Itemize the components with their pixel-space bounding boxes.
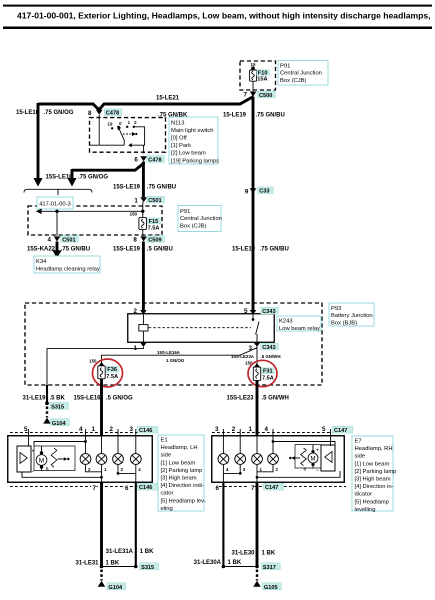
svg-text:15-LE21: 15-LE21 <box>156 96 180 102</box>
off-page reference 417-01-00-3 box <box>37 197 73 209</box>
svg-text:side: side <box>355 454 366 460</box>
E7 bottom connector line <box>214 486 346 488</box>
wire 31-LE31A E1 pin 6 <box>135 482 137 567</box>
svg-text:.75 GN/OG: .75 GN/OG <box>78 175 108 181</box>
svg-text:1 BK: 1 BK <box>140 549 154 555</box>
svg-text:[0] Off: [0] Off <box>171 136 187 142</box>
svg-text:−: − <box>316 467 319 472</box>
svg-text:15S-LE16: 15S-LE16 <box>74 395 102 401</box>
svg-text:S315: S315 <box>141 565 154 571</box>
svg-text:C146: C146 <box>139 428 152 434</box>
connector C501 top <box>140 197 147 202</box>
svg-text:.5 BK: .5 BK <box>50 395 66 401</box>
connector chip C147 bottom <box>264 483 284 490</box>
svg-text:Battery Junction: Battery Junction <box>331 313 373 319</box>
svg-text:Main light switch: Main light switch <box>171 128 214 134</box>
wire 15-LE10 vertical <box>37 103 40 179</box>
switch contact 2 link to output <box>131 127 145 145</box>
svg-text:6: 6 <box>134 157 138 164</box>
N113 label box <box>169 117 219 164</box>
E1 position sensor resistor <box>51 448 57 467</box>
K34 headlamp cleaning relay label box <box>34 256 100 273</box>
svg-text:E1: E1 <box>161 438 168 444</box>
wire 15S-LE19 to relay <box>142 242 145 312</box>
relay pin 1 connector <box>140 342 147 347</box>
svg-text:side: side <box>161 453 172 459</box>
svg-text:7: 7 <box>244 92 248 99</box>
connector chip C343 bottom <box>261 343 279 350</box>
svg-text:15-LE10: 15-LE10 <box>16 110 40 116</box>
svg-text:C509: C509 <box>148 237 161 243</box>
F15 value chip <box>148 218 161 224</box>
switch feed wire from pin 8 <box>98 115 100 145</box>
svg-text:C33: C33 <box>259 189 269 195</box>
svg-text:15S-LE23A: 15S-LE23A <box>231 354 255 359</box>
svg-text:.5 GN/OG: .5 GN/OG <box>106 395 133 401</box>
E1 module rail <box>34 442 86 447</box>
wire F10 to C500 <box>252 81 254 91</box>
E1 inner frame <box>34 446 75 471</box>
connector C501 bottom <box>54 236 61 241</box>
fuse F15 <box>139 218 147 230</box>
svg-text:[3] High beam: [3] High beam <box>355 477 391 483</box>
svg-text:1 BK: 1 BK <box>228 560 242 566</box>
svg-text:417-01-00-001, Exterior Lighti: 417-01-00-001, Exterior Lighting, Headla… <box>17 11 431 21</box>
svg-text:C478: C478 <box>106 111 119 117</box>
wire F15 to pin 8 <box>142 229 144 236</box>
connector chip C146 bottom <box>138 483 158 490</box>
svg-text:[5] Headlamp lev-: [5] Headlamp lev- <box>161 498 206 504</box>
wire 15-LE19 vertical feed <box>252 97 255 312</box>
svg-text:C500: C500 <box>259 93 272 99</box>
CJB internal bus wire <box>41 210 143 212</box>
wire 15S-KA22 <box>56 242 59 252</box>
svg-text:15: 15 <box>251 62 256 67</box>
E1 top connector line <box>10 432 152 434</box>
svg-text:31-LE19: 31-LE19 <box>23 395 47 401</box>
svg-text:[2] Parking lamp: [2] Parking lamp <box>161 468 203 474</box>
svg-text:31-LE31A: 31-LE31A <box>106 549 134 555</box>
svg-text:15S-LE10: 15S-LE10 <box>46 175 74 181</box>
E7 leveling module <box>316 445 335 472</box>
node: F10 feed dot <box>251 66 255 70</box>
lamp E7 high beam <box>218 454 229 472</box>
svg-text:C147: C147 <box>265 485 278 491</box>
title bar top rule <box>3 5 432 7</box>
connector chip C343 top <box>261 307 279 314</box>
ground G104 <box>98 581 106 587</box>
relay pin 2 connector <box>140 310 147 315</box>
svg-text:15-LE19: 15-LE19 <box>232 246 256 252</box>
switch linked wiper dashed <box>123 133 132 135</box>
svg-text:M: M <box>311 456 316 462</box>
pin 6 <box>124 484 130 491</box>
wire relay pin 3 feed bus 15S-LE16A <box>102 347 258 363</box>
switch contact 19 <box>111 127 113 129</box>
ground stub dashed right <box>256 570 258 581</box>
wire 15-LE21 C500 to switch pin 8 <box>99 97 253 110</box>
inspection circle right (red) <box>248 360 277 386</box>
E1 label box <box>158 435 206 512</box>
P91 label box lower <box>178 206 222 232</box>
svg-text:P93: P93 <box>331 306 341 312</box>
svg-text:[1] Low beam: [1] Low beam <box>355 461 390 467</box>
svg-text:G104: G104 <box>52 421 67 427</box>
svg-text:Headlamp, RH: Headlamp, RH <box>355 446 393 452</box>
svg-text:150: 150 <box>89 359 97 364</box>
wire bus to F15 <box>142 202 144 218</box>
svg-text:G104: G104 <box>108 585 123 591</box>
relay mechanical link <box>149 327 251 329</box>
svg-text:K243: K243 <box>279 319 293 325</box>
svg-text:8: 8 <box>133 237 137 244</box>
connector chip C147 top <box>333 426 353 433</box>
svg-text:3: 3 <box>130 426 134 433</box>
svg-text:15S-LE19: 15S-LE19 <box>113 185 141 191</box>
svg-text:31-LE30A: 31-LE30A <box>194 560 222 566</box>
connector C500 <box>250 92 257 97</box>
svg-text:7: 7 <box>93 485 97 492</box>
svg-text:5: 5 <box>322 426 326 433</box>
P93 label box <box>329 303 374 327</box>
svg-text:C147: C147 <box>334 428 347 434</box>
off-page arrow 15-LE10 <box>33 178 42 187</box>
switch contact 1 <box>126 126 128 128</box>
svg-text:31-LE30: 31-LE30 <box>231 550 255 556</box>
headlamp E1 body <box>8 436 153 483</box>
lamp E1 parking <box>113 454 124 472</box>
lamp E7 low beam <box>252 454 263 472</box>
svg-text:1 GN/OG: 1 GN/OG <box>166 358 185 363</box>
svg-text:+: + <box>316 447 319 452</box>
relay K243 body <box>128 314 275 343</box>
ground stub dashed left <box>100 570 102 581</box>
svg-text:C501: C501 <box>148 198 161 204</box>
connector C478 top <box>96 110 103 115</box>
svg-text:15S-KA22: 15S-KA22 <box>27 246 56 252</box>
wire 15S-LE10 branch <box>72 162 143 171</box>
svg-text:C146: C146 <box>139 485 152 491</box>
connector C33 <box>250 188 257 193</box>
switch output to pin 6 <box>143 145 145 153</box>
ground G104 <box>43 418 51 424</box>
svg-text:.75 GN/OG: .75 GN/OG <box>44 110 74 116</box>
switch contact 2 <box>133 126 135 128</box>
svg-text:M: M <box>39 457 44 464</box>
relay contact <box>252 314 254 318</box>
lamp E1 low beam <box>96 454 107 472</box>
svg-text:[19] Parking lamps: [19] Parking lamps <box>171 158 219 164</box>
svg-text:Headlamp cleaning relay: Headlamp cleaning relay <box>36 266 100 272</box>
svg-text:S317: S317 <box>263 565 276 571</box>
connector C478 bottom <box>140 156 147 161</box>
svg-text:6: 6 <box>125 485 129 492</box>
svg-text:4: 4 <box>265 426 269 433</box>
pin 7 <box>249 484 255 491</box>
svg-text:levelling: levelling <box>355 507 376 513</box>
node bus to F15 <box>141 210 144 213</box>
svg-text:cator: cator <box>161 491 174 497</box>
wire 15S-LE19 <box>142 162 145 198</box>
svg-text:4: 4 <box>79 426 83 433</box>
svg-text:.5 GN/WH: .5 GN/WH <box>262 395 289 401</box>
svg-text:.75 GN/BU: .75 GN/BU <box>260 246 289 252</box>
svg-text:4: 4 <box>48 237 52 244</box>
wire pin 3 to fuse F31 <box>256 347 258 364</box>
svg-text:P91: P91 <box>180 209 190 215</box>
svg-text:.5 GN/WH: .5 GN/WH <box>261 354 281 359</box>
pin 7 <box>91 484 97 491</box>
P91 Central Junction Box (CJB) label <box>278 61 328 86</box>
fuse F36 <box>98 366 105 379</box>
svg-text:.75 GN/BU: .75 GN/BU <box>61 246 90 252</box>
svg-text:Central Junction: Central Junction <box>280 71 322 77</box>
switch common rail <box>90 144 125 146</box>
E7 top connector line <box>212 432 344 434</box>
main light switch N113 dashed box <box>90 118 166 153</box>
K243 label box <box>277 316 321 332</box>
svg-text:150: 150 <box>130 211 138 216</box>
svg-text:P91: P91 <box>280 63 290 69</box>
fuse F31 lead <box>254 363 260 367</box>
svg-text:2: 2 <box>232 426 236 433</box>
relay pin 5 connector <box>250 310 257 315</box>
off-page arrow 15S-LE10 <box>67 178 76 187</box>
fuse F31 <box>253 367 260 380</box>
svg-text:Low beam relay: Low beam relay <box>279 326 320 332</box>
lamp E7 parking <box>235 454 246 472</box>
svg-text:2: 2 <box>110 426 114 433</box>
svg-text:N113: N113 <box>171 120 184 126</box>
F31 value chip <box>262 368 274 374</box>
svg-text:[5] Headlamp: [5] Headlamp <box>355 499 389 505</box>
svg-text:F36: F36 <box>107 367 117 373</box>
switch contact 0 <box>118 126 120 128</box>
svg-text:1: 1 <box>92 426 96 433</box>
lamp E7 direction indicator <box>268 454 279 472</box>
svg-text:1: 1 <box>134 198 138 205</box>
switch wiper <box>119 129 124 146</box>
splice S317 link <box>223 566 257 568</box>
svg-text:G105: G105 <box>264 585 278 591</box>
svg-text:E7: E7 <box>355 439 362 445</box>
fuse F36 lead <box>99 362 105 366</box>
splice S315 link <box>102 566 136 568</box>
E7 lamp return wiring <box>257 464 273 471</box>
wire 15S-LE23 to E7 <box>256 380 259 436</box>
svg-text:.75 GN/BU: .75 GN/BU <box>256 113 285 119</box>
svg-text:1: 1 <box>249 426 253 433</box>
svg-text:1 BK: 1 BK <box>106 561 120 567</box>
svg-text:15S-LE19: 15S-LE19 <box>113 246 141 252</box>
E7 inner frame <box>295 445 321 469</box>
svg-text:7: 7 <box>251 485 255 492</box>
relay pin 3 connector <box>254 342 261 347</box>
svg-text:Headlamp, LH: Headlamp, LH <box>161 445 198 451</box>
lamp E1 high beam <box>130 454 141 472</box>
svg-text:eling: eling <box>161 506 173 512</box>
splice S315 node <box>45 401 49 405</box>
off-page bracket <box>24 189 92 195</box>
svg-text:7.5A: 7.5A <box>148 226 160 232</box>
E7 leveling motor M <box>304 445 319 471</box>
svg-text:[1] Park: [1] Park <box>171 143 191 149</box>
wire 31-LE31 E1 pin 7 to ground <box>100 482 103 568</box>
E7 module rail <box>273 442 335 446</box>
F10 value chip <box>257 70 270 76</box>
svg-text:[4] Direction in-: [4] Direction in- <box>355 484 394 490</box>
wire 15-LE10 horizontal <box>38 104 99 110</box>
svg-text:Box (BJB): Box (BJB) <box>331 321 357 327</box>
svg-text:7.5A: 7.5A <box>262 376 274 382</box>
inspection circle left (red) <box>93 359 123 387</box>
connector chip C146 top <box>138 426 158 433</box>
E1 leveling module <box>17 446 35 473</box>
pin 6 <box>213 484 219 491</box>
svg-text:C501: C501 <box>62 237 75 243</box>
relay coil <box>142 314 144 324</box>
fuse F10 <box>250 70 257 81</box>
E1 lamp return wiring <box>86 464 102 471</box>
svg-text:15A: 15A <box>257 76 267 82</box>
node bus to pin 4 <box>55 210 58 213</box>
title bar bottom rule <box>3 27 432 30</box>
svg-text:2: 2 <box>134 308 138 315</box>
svg-text:6: 6 <box>215 485 219 492</box>
svg-text:1 BK: 1 BK <box>262 550 276 556</box>
F36 value chip <box>106 366 118 372</box>
svg-text:15S-LE16A: 15S-LE16A <box>157 350 181 355</box>
E1 leveling motor M <box>36 446 49 472</box>
svg-text:F31: F31 <box>263 369 273 375</box>
svg-text:Central Junction: Central Junction <box>180 216 222 222</box>
wire 31-LE19 below BJB <box>46 385 48 402</box>
connector C509 <box>140 236 147 241</box>
svg-text:9: 9 <box>245 188 249 195</box>
svg-text:[4] Direction indi-: [4] Direction indi- <box>161 483 205 489</box>
svg-text:C343: C343 <box>262 309 275 315</box>
svg-text:dicator: dicator <box>355 492 372 498</box>
E7 label box <box>352 436 396 513</box>
svg-text:3: 3 <box>215 426 219 433</box>
svg-text:[2] Parking lamp: [2] Parking lamp <box>355 469 397 475</box>
svg-text:Box (CJB): Box (CJB) <box>280 78 306 84</box>
arrow CJB bus continues <box>36 209 42 215</box>
svg-text:C343: C343 <box>262 345 275 351</box>
off-page arrow to K34 <box>52 250 61 258</box>
svg-text:S315: S315 <box>51 404 64 410</box>
svg-text:.5 GN/BU: .5 GN/BU <box>147 246 173 252</box>
fuse F10 dashed box (CJB) <box>240 61 276 90</box>
svg-text:[1] Low beam: [1] Low beam <box>161 460 196 466</box>
svg-text:[3] High beam: [3] High beam <box>161 476 197 482</box>
CJB dashed box with F15 <box>28 206 162 235</box>
svg-text:F15: F15 <box>149 219 159 225</box>
svg-text:Box (CJB): Box (CJB) <box>180 224 206 230</box>
ground stub dashed <box>46 407 48 418</box>
P93 battery junction box dashed outline <box>25 303 322 385</box>
svg-text:7.5A: 7.5A <box>106 374 118 380</box>
svg-text:15-LE19: 15-LE19 <box>223 113 247 119</box>
svg-text:8: 8 <box>88 110 92 117</box>
wire 15S-LE16 to E1 <box>100 379 103 436</box>
svg-text:19: 19 <box>108 122 113 127</box>
E7 position sensor resistor <box>301 448 307 466</box>
svg-text:5: 5 <box>244 308 248 315</box>
wire bus to pin 4 <box>56 211 58 236</box>
svg-text:C478: C478 <box>148 157 161 163</box>
wire 31-LE30A E7 pin 6 <box>222 482 224 567</box>
headlamp E7 body <box>212 436 345 483</box>
lamp E1 direction indicator <box>80 454 91 472</box>
svg-text:31-LE31: 31-LE31 <box>75 561 99 567</box>
svg-text:417-01-00-3: 417-01-00-3 <box>39 201 71 207</box>
ground G105 <box>253 581 261 587</box>
svg-text:15S-LE23: 15S-LE23 <box>226 395 254 401</box>
wire 31-LE30 E7 pin 7 to ground <box>256 482 259 568</box>
svg-text:5: 5 <box>24 426 28 433</box>
wire relay pin 1 to ground 31-LE19 <box>47 347 143 385</box>
svg-text:.75 GN/BU: .75 GN/BU <box>147 185 176 191</box>
svg-text:K34: K34 <box>36 259 47 265</box>
E1 bottom connector line <box>10 486 158 488</box>
svg-text:[2] Low beam: [2] Low beam <box>171 151 206 157</box>
